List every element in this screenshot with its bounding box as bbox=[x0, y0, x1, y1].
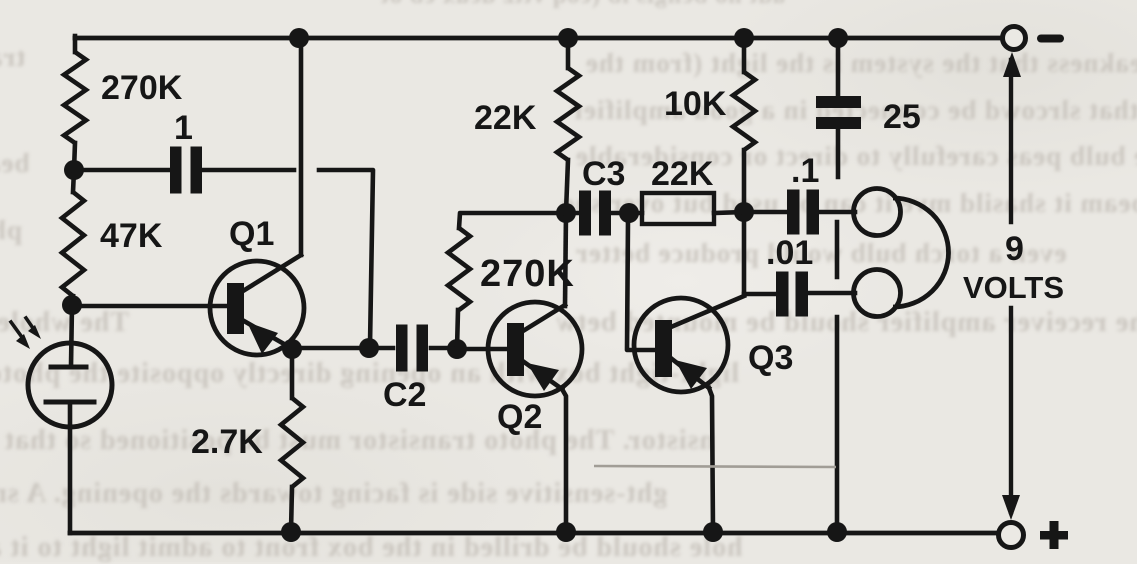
svg-text:270K: 270K bbox=[480, 253, 575, 295]
svg-text:VOLTS: VOLTS bbox=[963, 270, 1064, 305]
svg-text:C2: C2 bbox=[383, 376, 426, 414]
scan artifact line bbox=[594, 466, 836, 467]
battery span arrow (9 volts) bbox=[1009, 60, 1013, 222]
resistor R 10K bbox=[742, 40, 747, 72]
svg-text:1: 1 bbox=[174, 109, 193, 147]
capacitor .01 bbox=[776, 272, 789, 317]
svg-text:.1: .1 bbox=[791, 152, 819, 190]
wire: cap1 to crossover bbox=[203, 168, 294, 173]
terminal: negative (top) bbox=[1003, 27, 1026, 50]
headphone earpiece top bbox=[854, 189, 901, 236]
capacitor 25 (electrolytic) bbox=[836, 40, 841, 97]
photocell stem bottom bbox=[68, 402, 73, 533]
svg-text:22K: 22K bbox=[651, 155, 714, 193]
node: C2 left junction bbox=[359, 338, 379, 358]
wire: Q2 collector diagonal bbox=[523, 305, 565, 331]
node: bottom rail / 2.7K bbox=[281, 522, 301, 542]
photocell circle bbox=[28, 343, 112, 427]
transistor Q3 (PNP) circle bbox=[634, 298, 728, 392]
transistor Q2 (PNP) circle bbox=[488, 302, 582, 396]
wire: emitter row to C2 bbox=[292, 346, 369, 351]
transistor Q3 base bar bbox=[655, 320, 672, 377]
node: bottom rail / 25 line bbox=[827, 522, 847, 542]
wire: crossover continue, corner down to emitter node bbox=[319, 170, 373, 345]
resistor R 2.7K bbox=[290, 349, 295, 398]
wire: Q2 emitter down bbox=[562, 389, 566, 531]
node: junction 47K/photocell/Q1 base bbox=[62, 295, 82, 315]
wire: Q1 collector diagonal bbox=[243, 255, 301, 291]
terminal: positive (bottom) bbox=[999, 523, 1024, 548]
wire: Q1 collector riser bbox=[299, 47, 304, 255]
resistor R 22K (box, output) bbox=[642, 193, 714, 224]
node: Q1 emitter junction bbox=[282, 339, 302, 359]
svg-text:22K: 22K bbox=[474, 99, 537, 137]
resistor R 22K (Q2 collector load) bbox=[566, 40, 571, 68]
svg-text:10K: 10K bbox=[664, 85, 727, 123]
svg-text:25: 25 bbox=[883, 98, 921, 136]
node: C3 right junction bbox=[619, 203, 639, 223]
wire: junction down to .01 corner bbox=[742, 212, 747, 295]
node: bottom rail / Q2 emitter bbox=[556, 522, 576, 542]
node: C2 right / Q2 base / 270K fb bbox=[447, 339, 467, 359]
headphone earpiece bottom bbox=[854, 270, 901, 317]
top supply rail (negative) bbox=[75, 36, 1001, 41]
node: top rail / 25 cap bbox=[828, 28, 848, 48]
svg-text:2.7K: 2.7K bbox=[191, 423, 263, 461]
resistor R 270K (feedback) bbox=[457, 310, 458, 349]
svg-text:Q2: Q2 bbox=[497, 398, 542, 436]
node: 10K / 22K / .1 junction bbox=[734, 202, 754, 222]
svg-text:.01: .01 bbox=[766, 234, 813, 272]
svg-text:9: 9 bbox=[1005, 230, 1024, 268]
wire: cap1 row from junction bbox=[74, 168, 169, 173]
node: top rail / 10K bbox=[734, 28, 754, 48]
svg-text:C3: C3 bbox=[582, 155, 625, 193]
transistor Q2 base bar bbox=[507, 323, 524, 376]
wire: Q1 base wire bbox=[72, 304, 227, 309]
transistor Q3 emitter with arrow bbox=[672, 359, 709, 388]
node: bottom rail / Q3 emitter bbox=[703, 522, 723, 542]
wire: left column top bbox=[73, 36, 78, 52]
capacitor C2 bbox=[396, 325, 408, 372]
photocell stem top bbox=[71, 305, 72, 366]
node: junction 270K/47K/cap1 bbox=[64, 160, 84, 180]
node: top rail / Q1 collector bbox=[289, 28, 309, 48]
wire: Q2 base bbox=[457, 347, 507, 352]
light arrow 2 bbox=[26, 318, 35, 331]
minus sign bbox=[1037, 35, 1064, 43]
capacitor C3 bbox=[579, 191, 591, 236]
wire: 25 cap down (broken at crossings) bbox=[836, 129, 841, 177]
resistor R 47K (left bias lower) bbox=[73, 170, 74, 192]
photocell top plate bbox=[51, 365, 86, 370]
photocell bottom plate bbox=[46, 400, 94, 405]
node: Q2 collector / C3 junction bbox=[556, 203, 576, 223]
transistor Q1 emitter with arrow bbox=[244, 321, 291, 348]
svg-text:Q1: Q1 bbox=[229, 215, 274, 253]
wire: Q3 base drop and lead bbox=[627, 220, 655, 350]
transistor Q2 emitter with arrow bbox=[524, 362, 562, 389]
bottom supply rail (positive) bbox=[70, 531, 998, 536]
wire: junction riser to Q2 collector bbox=[565, 213, 566, 306]
light arrow 1 bbox=[11, 322, 24, 340]
svg-text:47K: 47K bbox=[100, 217, 163, 255]
capacitor 1uF bbox=[170, 147, 182, 194]
svg-text:Q3: Q3 bbox=[748, 339, 793, 377]
svg-text:270K: 270K bbox=[101, 69, 183, 107]
node: top rail / 22K bbox=[558, 28, 578, 48]
transistor Q1 (PNP) circle bbox=[210, 261, 304, 355]
resistor R 270K (left bias upper) bbox=[64, 52, 86, 143]
wire: Q3 emitter down bbox=[709, 388, 713, 531]
capacitor .1 bbox=[787, 190, 800, 235]
headphone band arc bbox=[893, 198, 948, 307]
plus sign bbox=[1040, 531, 1068, 540]
wire: Q3 collector diagonal bbox=[671, 296, 744, 327]
transistor Q1 base bar bbox=[227, 283, 244, 334]
